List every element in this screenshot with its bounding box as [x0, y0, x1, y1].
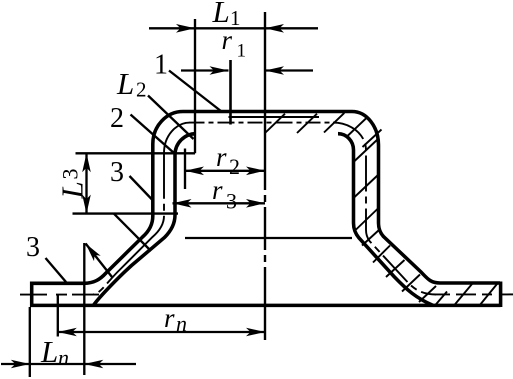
- svg-text:L: L: [116, 66, 134, 101]
- svg-text:r: r: [216, 142, 227, 172]
- svg-text:2: 2: [136, 78, 147, 102]
- svg-text:r: r: [222, 25, 233, 55]
- svg-text:r: r: [164, 303, 175, 333]
- svg-text:L: L: [55, 181, 90, 199]
- svg-text:1: 1: [154, 50, 168, 81]
- svg-text:2: 2: [229, 154, 240, 179]
- svg-text:L: L: [40, 334, 58, 369]
- svg-text:3: 3: [58, 169, 83, 180]
- svg-text:3: 3: [226, 189, 237, 214]
- svg-text:2: 2: [110, 103, 124, 134]
- svg-text:3: 3: [26, 232, 40, 263]
- svg-text:n: n: [176, 311, 187, 336]
- svg-text:1: 1: [237, 41, 247, 62]
- svg-text:r: r: [212, 175, 223, 205]
- svg-text:n: n: [58, 345, 69, 370]
- svg-text:3: 3: [110, 157, 124, 188]
